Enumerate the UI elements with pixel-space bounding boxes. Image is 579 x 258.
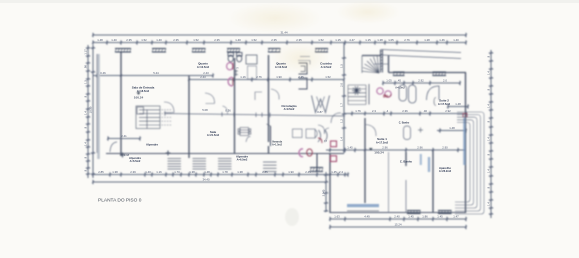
svg-text:2.40: 2.40 [394, 215, 400, 219]
svg-text:2.39: 2.39 [130, 170, 136, 174]
suite sliding glazing bottom [347, 204, 379, 207]
porch steps 3 [218, 159, 232, 170]
svg-text:1.45: 1.45 [331, 170, 337, 174]
svg-text:31.44: 31.44 [281, 31, 288, 35]
svg-text:1.48: 1.48 [455, 102, 461, 106]
svg-text:2.35: 2.35 [173, 38, 179, 42]
wall x=121 entrance [120, 52, 122, 156]
svg-text:5.44: 5.44 [153, 71, 159, 75]
kitchen counter L [298, 61, 310, 65]
small curve near table [246, 136, 251, 142]
entrance door arc [164, 102, 174, 113]
wall x=388 bath [388, 55, 390, 73]
svg-text:1.90: 1.90 [288, 170, 294, 174]
top segmented dimension chain [92, 40, 467, 44]
svg-text:1.52: 1.52 [251, 38, 257, 42]
svg-text:1.4: 1.4 [83, 142, 87, 146]
right wing left wall [329, 153, 331, 213]
svg-text:34.40: 34.40 [203, 178, 210, 182]
level mark 100.24 entrance [137, 92, 141, 95]
bedrooms interior dimension line [188, 77, 345, 81]
left outer dimension chain [86, 45, 90, 178]
sofa rect 1 [293, 129, 303, 138]
arch door arc upper right [427, 86, 440, 100]
svg-text:1.5: 1.5 [339, 64, 343, 68]
magenta circle pair at winder [377, 88, 383, 94]
svg-text:5.08: 5.08 [202, 108, 208, 112]
svg-text:1.63: 1.63 [334, 215, 340, 219]
svg-text:1.38: 1.38 [189, 170, 195, 174]
svg-text:1.40: 1.40 [145, 170, 151, 174]
aparelho top wall [437, 128, 467, 132]
svg-text:1.45: 1.45 [347, 146, 353, 150]
svg-text:1.52: 1.52 [318, 38, 324, 42]
small bar at suite door [420, 154, 422, 165]
bottom right sill 2 [438, 211, 452, 214]
red mark left of junction [318, 138, 322, 143]
svg-text:A=6.5m2: A=6.5m2 [130, 159, 141, 163]
right glazing vertical [463, 118, 465, 165]
bath oval 1 [399, 85, 407, 101]
wall x=365 suite [364, 118, 366, 203]
bedroom1 door arc [205, 93, 215, 104]
svg-text:1.15: 1.15 [335, 38, 341, 42]
suite door leaf [404, 126, 411, 140]
svg-text:2.96: 2.96 [382, 146, 388, 150]
svg-text:A=18.5m2: A=18.5m2 [137, 89, 150, 93]
terrace nested steps [455, 112, 484, 214]
svg-text:2.90: 2.90 [442, 146, 448, 150]
svg-text:2.76: 2.76 [404, 38, 410, 42]
svg-text:2.35: 2.35 [298, 75, 304, 79]
right wing top wall [389, 72, 467, 74]
svg-text:1.38: 1.38 [112, 170, 118, 174]
svg-text:A=10.5m2: A=10.5m2 [197, 65, 210, 69]
svg-text:0.87: 0.87 [317, 110, 323, 114]
svg-text:1.70: 1.70 [174, 170, 180, 174]
svg-text:2.85: 2.85 [262, 170, 268, 174]
svg-text:2.35: 2.35 [126, 38, 132, 42]
svg-text:1.45: 1.45 [437, 215, 443, 219]
wall x=268 bedroom-kitchen [268, 55, 270, 142]
svg-text:1.38: 1.38 [237, 170, 243, 174]
hall-living interior dimension line [165, 111, 345, 118]
svg-text:1.05: 1.05 [386, 79, 392, 83]
porch steps 1 [168, 159, 182, 170]
svg-text:Alpendre: Alpendre [146, 143, 159, 147]
svg-text:1.4: 1.4 [486, 202, 490, 206]
svg-text:2.4: 2.4 [339, 170, 343, 174]
terrace small dimension 1.48 [447, 104, 469, 108]
left wing left wall [97, 54, 100, 159]
wall x=433 [432, 150, 434, 213]
svg-text:1.16: 1.16 [156, 170, 162, 174]
svg-text:0.46: 0.46 [100, 71, 106, 75]
svg-text:1.4: 1.4 [339, 137, 343, 141]
svg-text:.46: .46 [423, 109, 427, 113]
svg-text:2.43: 2.43 [200, 75, 206, 79]
svg-text:1.52: 1.52 [325, 75, 331, 79]
svg-text:1.48: 1.48 [204, 170, 210, 174]
svg-text:1.28: 1.28 [424, 38, 430, 42]
bedroom2 door arc [271, 89, 279, 100]
svg-text:1.47: 1.47 [453, 215, 459, 219]
svg-text:1.45: 1.45 [408, 215, 414, 219]
wc toilet icons dark pair [228, 53, 242, 62]
svg-text:1.52: 1.52 [193, 38, 199, 42]
hall door arc small [223, 106, 228, 115]
svg-text:100.24: 100.24 [374, 151, 384, 155]
svg-text:2.0: 2.0 [443, 79, 447, 83]
roof overhang line lower [381, 55, 461, 59]
porch step dimension 2.41 [107, 136, 141, 140]
window sill 2 [152, 49, 166, 53]
svg-text:10.30: 10.30 [88, 106, 92, 113]
svg-text:1.40: 1.40 [156, 38, 162, 42]
window sill 3 [192, 49, 206, 53]
svg-text:2.85: 2.85 [98, 170, 104, 174]
svg-text:.98: .98 [83, 65, 87, 69]
kitchen bracket shelves [299, 63, 308, 74]
bottom right sill 1 [407, 211, 421, 214]
faint smudge bottom [285, 208, 299, 226]
porch steps 2 [193, 159, 207, 170]
entrance stair [136, 106, 172, 129]
right wing right wall [465, 73, 467, 214]
svg-text:1.48: 1.48 [97, 38, 103, 42]
wall x=189 between hall and bedroom [188, 76, 190, 158]
svg-text:1.40: 1.40 [235, 38, 241, 42]
kitchen dash [300, 56, 310, 58]
svg-text:8o: 8o [383, 94, 389, 99]
corner lines near bedroom2 [255, 92, 262, 100]
porch steps 4 [263, 162, 277, 172]
svg-text:2.35: 2.35 [271, 38, 277, 42]
right wing sill 1 [393, 72, 405, 76]
bottom sill below living [310, 168, 323, 172]
stair hall top wall [362, 55, 381, 57]
winder stair fan [362, 56, 379, 74]
svg-text:1.46: 1.46 [439, 38, 445, 42]
entrance hall width dimension 5.44 [93, 73, 214, 77]
right wing upper interior dimension [382, 81, 461, 85]
hatched entry wall [380, 50, 383, 73]
right wing bottom wall [330, 212, 466, 214]
window sill 1 [115, 49, 131, 53]
svg-text:1.4: 1.4 [486, 137, 490, 141]
svg-text:1.52: 1.52 [141, 38, 147, 42]
junction vertical dimension line [324, 172, 328, 212]
dark cross tick at porch [166, 151, 171, 156]
stair center dark hub [352, 86, 361, 95]
magenta wc bowl lower [228, 77, 232, 85]
window sill 4 [227, 49, 240, 53]
dark cross at wall x=121 base [120, 153, 125, 158]
wc dimension ticks [234, 70, 238, 77]
svg-text:1.4: 1.4 [83, 111, 87, 115]
dark label 0.98 at porch wall [92, 172, 349, 176]
red mark at top right corner of suite dim [463, 114, 467, 118]
svg-text:A=17.2m2: A=17.2m2 [376, 140, 389, 144]
bottom left-wing total dimension line 34.40 [92, 180, 327, 184]
stair hall small wall [374, 63, 389, 65]
balcony wall stub [270, 126, 272, 146]
wall x=234 between bedrooms [234, 58, 236, 153]
sofa rect 2 with arc [306, 129, 315, 138]
svg-text:1.4: 1.4 [486, 169, 490, 173]
svg-text:2.35: 2.35 [214, 38, 220, 42]
svg-text:A=10.5m2: A=10.5m2 [275, 65, 288, 69]
svg-text:2.92: 2.92 [418, 79, 424, 83]
window sill 5 [268, 49, 281, 53]
svg-text:A=6.5m2: A=6.5m2 [395, 87, 405, 90]
svg-text:2.76: 2.76 [256, 75, 262, 79]
svg-text:1.15: 1.15 [365, 38, 371, 42]
svg-text:PLANTA DO PISO 0: PLANTA DO PISO 0 [98, 198, 142, 204]
svg-text:1.7: 1.7 [339, 103, 343, 107]
upper door arc at junction [331, 113, 341, 123]
svg-text:2.0: 2.0 [339, 83, 343, 87]
svg-text:1.48: 1.48 [449, 126, 455, 130]
wall x=406 bath-suite [405, 152, 407, 166]
svg-text:2.96: 2.96 [417, 146, 423, 150]
svg-text:1.5: 1.5 [83, 80, 87, 84]
svg-text:2.45: 2.45 [305, 170, 311, 174]
level mark 100.24 suite [369, 148, 373, 151]
svg-text:C. Banho: C. Banho [400, 160, 413, 164]
junction curves [318, 125, 325, 133]
red square at junction 1 [331, 141, 337, 147]
suite interior dimension line [326, 148, 466, 152]
svg-text:1.17: 1.17 [83, 49, 87, 55]
svg-text:100.24: 100.24 [134, 96, 144, 100]
window sill 6 [315, 49, 328, 53]
porch door arc [110, 142, 117, 152]
svg-text:1.2: 1.2 [339, 119, 343, 123]
svg-text:A=9.5m2: A=9.5m2 [321, 65, 332, 69]
tick cross at suite door [418, 128, 423, 133]
svg-text:1.4: 1.4 [486, 71, 490, 75]
wall x=317 below living [316, 153, 318, 171]
svg-text:1.76: 1.76 [355, 109, 361, 113]
svg-text:1.40: 1.40 [453, 38, 459, 42]
armchair arcs [318, 130, 321, 142]
svg-text:1.78: 1.78 [222, 170, 228, 174]
svg-text:1.16: 1.16 [240, 75, 246, 79]
red square at junction 2 [331, 156, 337, 162]
bottom right-wing segmented dimension chain [329, 217, 467, 221]
svg-text:0.36: 0.36 [225, 108, 231, 112]
bar above aparelho [428, 157, 430, 172]
svg-text:.45: .45 [397, 79, 401, 83]
bath oval 2 [409, 85, 417, 103]
left inner total dimension line 10.30 [91, 45, 95, 178]
svg-text:2.36: 2.36 [402, 109, 408, 113]
right outer dimension chain [489, 50, 493, 218]
winder stair lower treads [348, 84, 369, 105]
label suite 2 brace [434, 98, 436, 106]
right wing middle interior dimension [344, 111, 467, 115]
svg-text:C. Banho: C. Banho [399, 122, 410, 125]
svg-text:2.92: 2.92 [445, 109, 451, 113]
magenta wc bowl upper [227, 63, 233, 70]
svg-text:1.05: 1.05 [388, 38, 394, 42]
svg-text:2.41: 2.41 [121, 134, 127, 138]
bottom right-wing total dimension line 15.24 [329, 225, 467, 229]
svg-text:1.86: 1.86 [422, 215, 428, 219]
shower square [246, 55, 257, 64]
interior vertical dimension at stair hall [342, 43, 346, 153]
suite door arc [365, 125, 376, 137]
svg-text:A=17.5m2: A=17.5m2 [438, 102, 451, 106]
svg-text:1.28: 1.28 [377, 38, 383, 42]
right wing sill 2 [433, 72, 447, 76]
svg-text:4.49: 4.49 [364, 215, 370, 219]
laundry W symbol [312, 96, 330, 113]
svg-text:2.35: 2.35 [296, 38, 302, 42]
svg-text:A=9.5m2: A=9.5m2 [284, 107, 295, 111]
text labels layer [83, 31, 490, 227]
left wing bottom wall [106, 153, 344, 155]
top overall dimension line 31.44 [92, 33, 467, 37]
svg-text:3.045: 3.045 [321, 189, 325, 196]
roof overhang line upper [381, 50, 461, 53]
svg-text:A=1.5m2: A=1.5m2 [272, 144, 283, 147]
svg-text:A=21.5m2: A=21.5m2 [207, 133, 220, 137]
svg-text:2.3: 2.3 [372, 109, 376, 113]
svg-text:1.90: 1.90 [276, 75, 282, 79]
svg-text:1.4: 1.4 [486, 104, 490, 108]
svg-text:1.40: 1.40 [111, 38, 117, 42]
svg-text:4.47: 4.47 [349, 38, 355, 42]
svg-text:A=26.2m2: A=26.2m2 [439, 169, 452, 173]
svg-text:A=6.5m2: A=6.5m2 [237, 158, 248, 162]
svg-text:15.24: 15.24 [395, 223, 402, 227]
magenta wc pair in lower bath [299, 149, 303, 157]
dining table icon [238, 128, 251, 136]
